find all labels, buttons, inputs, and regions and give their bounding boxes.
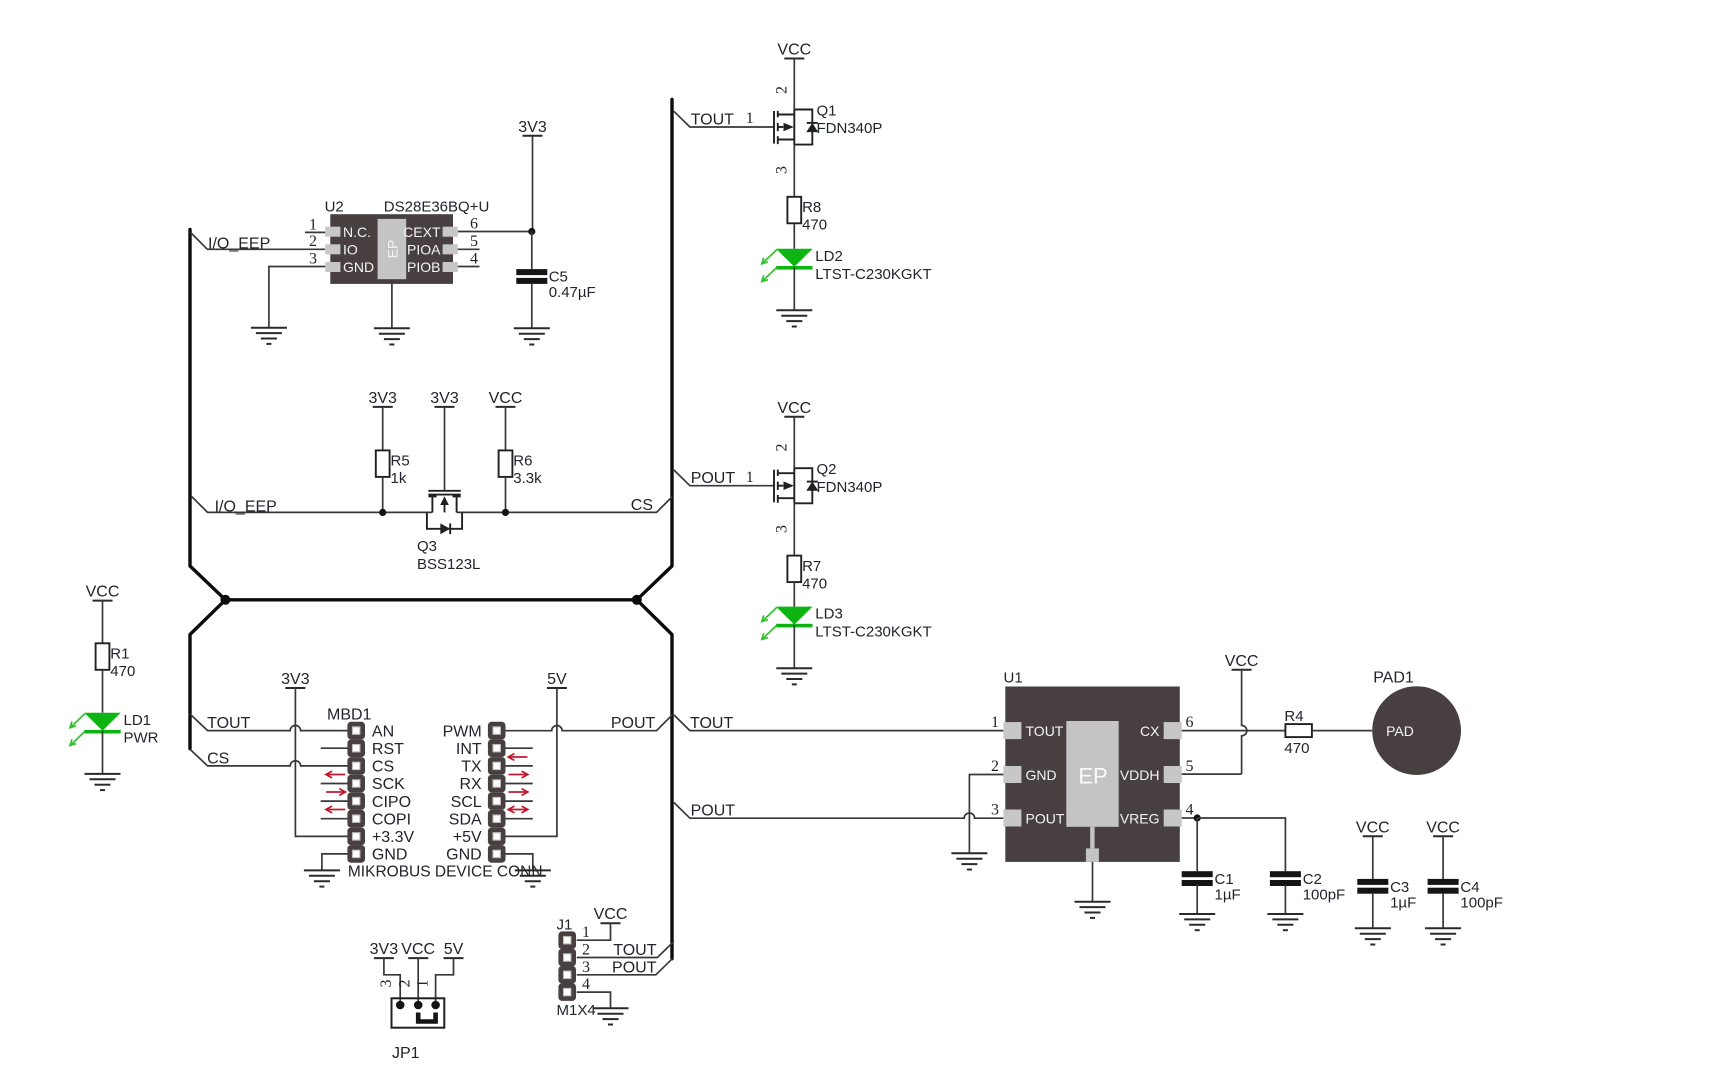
svg-text:VCC: VCC xyxy=(1356,819,1390,836)
wire R1 to LD1 xyxy=(102,670,104,713)
svg-text:LD1: LD1 xyxy=(124,712,152,729)
svg-text:3: 3 xyxy=(991,802,999,819)
wire CX pin6 to R4 xyxy=(1182,730,1286,732)
wire TOUT from bus to J1 pin2 xyxy=(577,941,674,957)
svg-text:R7: R7 xyxy=(802,558,821,575)
wire VCC to R1 xyxy=(102,601,104,644)
connector J1 M1X4 xyxy=(558,931,576,1000)
ground U2 EP xyxy=(374,328,410,344)
node R6 junction xyxy=(502,509,509,516)
bus I/O_EEP / CS / TOUT / POUT thick net bundle xyxy=(190,100,672,959)
svg-text:CIPO: CIPO xyxy=(372,794,411,811)
JP1 pin3 contact xyxy=(396,1001,405,1010)
svg-text:LTST-C230KGKT: LTST-C230KGKT xyxy=(815,624,931,641)
svg-text:VCC: VCC xyxy=(777,42,811,59)
svg-text:TOUT: TOUT xyxy=(1026,723,1064,739)
wire VREG node to C2 xyxy=(1197,818,1285,871)
transistor Q3 BSS123L xyxy=(427,491,462,534)
power 3V3 rail above C5 xyxy=(518,119,547,136)
wire VCC to Q1 drain pin2 xyxy=(793,59,795,110)
wire POUT gate Q2 xyxy=(674,470,774,486)
svg-text:5V: 5V xyxy=(444,941,464,958)
svg-text:FDN340P: FDN340P xyxy=(817,120,883,137)
svg-text:IO: IO xyxy=(343,242,358,258)
svg-text:EP: EP xyxy=(385,240,401,259)
wire CEXT node down to C5 xyxy=(531,232,533,270)
JP1 shunt jumper 1-2 xyxy=(418,1013,435,1022)
svg-text:TOUT: TOUT xyxy=(690,715,733,732)
svg-text:470: 470 xyxy=(110,663,135,680)
svg-text:PAD1: PAD1 xyxy=(1373,670,1414,687)
svg-text:3: 3 xyxy=(309,250,317,267)
U2 pin 6 wire to C5 node xyxy=(458,231,532,233)
arrow in above COPI xyxy=(326,806,345,813)
DEVICE CONN pin SCL stub xyxy=(505,800,532,802)
svg-text:1: 1 xyxy=(746,469,754,486)
node CEXT junction xyxy=(528,228,535,235)
svg-text:INT: INT xyxy=(456,741,482,758)
DEVICE CONN pin GND wire to ground xyxy=(505,854,532,871)
resistor R8 470 xyxy=(787,197,801,224)
svg-text:1µF: 1µF xyxy=(1215,887,1241,904)
ground C3 xyxy=(1355,928,1391,944)
svg-text:RX: RX xyxy=(459,776,482,793)
wire JP1 pin1 to 5V xyxy=(436,958,454,1005)
power 5V rail above DEVICE CONN xyxy=(547,671,567,688)
arrow in above TX xyxy=(508,754,527,761)
power VCC rail above R1 xyxy=(86,584,120,601)
svg-text:RST: RST xyxy=(372,741,404,758)
wire U1 GND pin2 to ground with drop xyxy=(969,775,1003,854)
svg-text:R4: R4 xyxy=(1284,708,1303,725)
wire LD1 to ground xyxy=(102,731,104,774)
arrow in above SCK xyxy=(326,771,345,778)
power VCC rail above J1 xyxy=(594,906,628,923)
wire VREG node to C1 xyxy=(1196,818,1198,871)
wire JP1 pin2 to VCC xyxy=(417,958,419,1005)
svg-text:R8: R8 xyxy=(802,199,821,216)
svg-text:R5: R5 xyxy=(391,453,410,470)
U2 EP wire to ground xyxy=(391,279,393,328)
MBD1 pin SCK stub xyxy=(321,783,348,785)
svg-text:6: 6 xyxy=(1186,714,1194,731)
power VCC rail above VDDH xyxy=(1225,653,1259,670)
ground U2 pin3 xyxy=(251,328,287,344)
svg-text:5V: 5V xyxy=(547,671,567,688)
power VCC rail above Q2 xyxy=(777,400,811,417)
svg-text:U2: U2 xyxy=(325,199,344,216)
svg-text:I/O_EEP: I/O_EEP xyxy=(208,235,270,252)
DEVICE CONN pin SDA stub xyxy=(505,818,532,820)
power VCC rail above C4 xyxy=(1426,819,1460,836)
wire 3V3 to CEXT node xyxy=(532,136,534,232)
resistor R7 470 xyxy=(787,556,801,583)
power 3V3 rail above JP1 xyxy=(370,941,399,958)
wire C5 to ground xyxy=(531,283,533,329)
ground U1 pin2 xyxy=(951,853,987,869)
svg-text:GND: GND xyxy=(446,847,482,864)
svg-text:PIOB: PIOB xyxy=(407,259,440,275)
bus junction right xyxy=(632,595,642,605)
svg-text:POUT: POUT xyxy=(611,715,656,732)
svg-text:TOUT: TOUT xyxy=(207,715,250,732)
svg-text:2: 2 xyxy=(774,444,791,452)
svg-text:5: 5 xyxy=(470,233,478,250)
wire TOUT from bus to MBD1 AN with hop xyxy=(190,714,348,731)
svg-text:1: 1 xyxy=(582,924,590,941)
svg-text:3V3: 3V3 xyxy=(430,390,459,407)
svg-text:3V3: 3V3 xyxy=(368,390,397,407)
power VCC rail above C3 xyxy=(1356,819,1390,836)
LED LD3 LTST-C230KGKT xyxy=(762,607,813,640)
svg-text:3: 3 xyxy=(582,959,590,976)
wire VCC to C3 xyxy=(1372,836,1374,879)
svg-text:CS: CS xyxy=(207,750,229,767)
DEVICE CONN pin TX stub xyxy=(505,765,532,767)
svg-text:5: 5 xyxy=(1186,758,1194,775)
wire LD2 to ground xyxy=(793,267,795,310)
ground J1 xyxy=(593,1008,629,1024)
capacitor C1 1uF xyxy=(1182,871,1213,886)
svg-text:4: 4 xyxy=(582,976,590,993)
svg-text:VCC: VCC xyxy=(777,400,811,417)
ground C5 xyxy=(514,328,550,344)
svg-text:1: 1 xyxy=(746,110,754,127)
svg-text:3: 3 xyxy=(774,525,791,533)
transistor Q1 FDN340P xyxy=(774,110,818,145)
node VREG junction xyxy=(1194,814,1201,821)
wire POUT from bus to U1 pin3 with hop at GND drop xyxy=(674,803,1004,819)
svg-text:3V3: 3V3 xyxy=(281,671,310,688)
svg-text:VCC: VCC xyxy=(594,906,628,923)
svg-text:3.3k: 3.3k xyxy=(513,470,542,487)
capacitor C4 100pF xyxy=(1428,879,1459,894)
svg-text:SDA: SDA xyxy=(449,811,482,828)
svg-text:VREG: VREG xyxy=(1120,811,1160,827)
wire R7 to LD3 xyxy=(793,582,795,607)
svg-text:SCL: SCL xyxy=(451,794,482,811)
ground LD3 xyxy=(776,668,812,684)
svg-text:100pF: 100pF xyxy=(1460,894,1503,911)
arrow bidir above SDA xyxy=(508,806,528,813)
svg-text:PAD: PAD xyxy=(1386,723,1414,739)
svg-text:3: 3 xyxy=(378,980,395,988)
wire R8 to LD2 xyxy=(793,223,795,249)
svg-text:Q2: Q2 xyxy=(817,461,837,478)
resistor R6 3.3k xyxy=(499,450,513,477)
svg-text:Q1: Q1 xyxy=(817,103,837,120)
svg-text:POUT: POUT xyxy=(691,803,736,820)
svg-text:CS: CS xyxy=(372,759,394,776)
wire TOUT from bus to U1 pin1 xyxy=(674,715,1004,731)
wire R5 to I/O_EEP node xyxy=(382,477,384,513)
wire JP1 pin3 to 3V3 xyxy=(384,958,400,1005)
svg-text:AN: AN xyxy=(372,723,394,740)
svg-text:4: 4 xyxy=(470,250,478,267)
svg-text:EP: EP xyxy=(1078,764,1107,789)
svg-text:PWR: PWR xyxy=(124,730,159,747)
U2 pin 3 wire to ground xyxy=(269,267,325,328)
svg-text:VCC: VCC xyxy=(1225,653,1259,670)
svg-text:DS28E36BQ+U: DS28E36BQ+U xyxy=(384,199,489,216)
LED LD1 PWR xyxy=(70,713,121,746)
wire Q2 source pin3 to R7 xyxy=(793,503,795,555)
capacitor C3 1uF xyxy=(1357,879,1388,894)
wire 3V3 to Q3 gate xyxy=(444,407,446,490)
U2 pin 1 stub xyxy=(305,231,325,233)
svg-text:SCK: SCK xyxy=(372,776,405,793)
arrow out above SCL xyxy=(509,789,528,796)
svg-text:6: 6 xyxy=(470,215,478,232)
DEVICE CONN pin RX stub xyxy=(505,783,532,785)
svg-text:MBD1: MBD1 xyxy=(327,707,372,724)
jumper JP1 body xyxy=(392,998,445,1027)
power 5V rail above JP1 xyxy=(444,941,464,958)
wire J1 pin1 to VCC xyxy=(577,923,611,940)
svg-text:TOUT: TOUT xyxy=(613,942,656,959)
power VCC rail above Q1 xyxy=(777,42,811,59)
svg-text:CX: CX xyxy=(1140,723,1160,739)
wire VCC to C4 xyxy=(1442,836,1444,879)
svg-text:J1: J1 xyxy=(557,917,573,934)
capacitor C2 100pF xyxy=(1270,871,1301,886)
ground DEVICE CONN xyxy=(515,870,551,886)
wire C2 to ground xyxy=(1284,885,1286,914)
svg-text:M1X4: M1X4 xyxy=(557,1002,596,1019)
svg-text:U1: U1 xyxy=(1004,670,1023,687)
svg-text:2: 2 xyxy=(582,942,590,959)
wire R4 to PAD1 xyxy=(1312,730,1372,732)
wire C3 to ground xyxy=(1372,893,1374,929)
JP1 pin2 contact xyxy=(414,1001,423,1010)
wire CS from Q3 to bus xyxy=(457,497,673,513)
svg-text:CS: CS xyxy=(631,497,653,514)
capacitor C5 xyxy=(516,269,547,284)
MBD1 pin COPI stub xyxy=(321,818,348,820)
wire LD3 to ground xyxy=(793,625,795,668)
wire VCC to Q2 drain pin2 xyxy=(793,417,795,468)
ground C2 xyxy=(1267,914,1303,930)
svg-text:POUT: POUT xyxy=(1026,811,1065,827)
svg-text:PWM: PWM xyxy=(443,723,482,740)
connector MBD1 mikroBUS left half xyxy=(347,722,365,863)
svg-text:1: 1 xyxy=(309,216,317,233)
ground LD1 xyxy=(85,774,121,790)
svg-text:3V3: 3V3 xyxy=(370,941,399,958)
ground C4 xyxy=(1425,928,1461,944)
DEVICE CONN pin INT stub xyxy=(505,747,532,749)
wire I/O_EEP mid from bus to Q3/R5 xyxy=(191,496,432,513)
svg-text:3: 3 xyxy=(774,166,791,174)
ground LD2 xyxy=(776,310,812,326)
U2 pin 5 stub xyxy=(458,248,480,250)
wire R6 to CS node xyxy=(505,477,507,513)
svg-text:TX: TX xyxy=(461,759,482,776)
svg-text:I/O_EEP: I/O_EEP xyxy=(215,498,277,515)
wire VCC to R6 xyxy=(505,407,507,451)
svg-text:LTST-C230KGKT: LTST-C230KGKT xyxy=(815,266,931,283)
svg-text:+5V: +5V xyxy=(453,829,482,846)
U2 pin 4 stub xyxy=(458,266,480,268)
ground MBD1 xyxy=(304,870,340,886)
svg-text:LD3: LD3 xyxy=(815,606,843,623)
svg-text:VCC: VCC xyxy=(1426,819,1460,836)
wire 3V3 to R5 xyxy=(382,407,384,451)
wire VCC drop to VDDH with hop over CX xyxy=(1242,670,1247,774)
wire VREG pin4 to node xyxy=(1182,817,1198,819)
pad PAD1 xyxy=(1372,686,1461,775)
wire C4 to ground xyxy=(1442,893,1444,929)
MBD1 pin GND wire to ground xyxy=(322,854,348,871)
svg-text:POUT: POUT xyxy=(612,959,657,976)
wire CS from bus to MBD1 CS with hop xyxy=(190,749,348,766)
arrow out above RX xyxy=(509,771,528,778)
svg-text:VDDH: VDDH xyxy=(1120,767,1160,783)
svg-text:1µF: 1µF xyxy=(1390,894,1416,911)
svg-text:VCC: VCC xyxy=(401,941,435,958)
svg-text:2: 2 xyxy=(774,86,791,94)
node R5 junction xyxy=(379,509,386,516)
svg-text:GND: GND xyxy=(343,259,374,275)
resistor R5 1k xyxy=(376,450,390,477)
svg-text:LD2: LD2 xyxy=(815,248,843,265)
svg-text:2: 2 xyxy=(397,980,414,988)
JP1 pin1 contact xyxy=(431,1001,440,1010)
IC U1 xyxy=(1003,687,1181,862)
svg-text:470: 470 xyxy=(1284,740,1309,757)
svg-text:1k: 1k xyxy=(391,470,407,487)
power 3V3 rail above Q3 gate xyxy=(430,390,459,407)
svg-text:Q3: Q3 xyxy=(417,538,437,555)
wire Q1 source pin3 to R8 xyxy=(793,145,795,197)
wire U1 EP to ground xyxy=(1092,862,1094,902)
svg-text:2: 2 xyxy=(309,233,317,250)
svg-text:470: 470 xyxy=(802,217,827,234)
LED LD2 LTST-C230KGKT xyxy=(762,249,813,282)
svg-text:4: 4 xyxy=(1186,802,1194,819)
svg-text:R1: R1 xyxy=(110,646,129,663)
wire 5V to DEVICE CONN +5V xyxy=(505,688,557,836)
svg-text:TOUT: TOUT xyxy=(691,111,734,128)
connector DEVICE CONN mikroBUS right half xyxy=(488,722,506,863)
svg-text:MIKROBUS DEVICE CONN: MIKROBUS DEVICE CONN xyxy=(348,863,543,880)
svg-text:+3.3V: +3.3V xyxy=(372,829,415,846)
wire VDDH pin5 xyxy=(1182,773,1242,775)
svg-text:2: 2 xyxy=(991,758,999,775)
svg-text:470: 470 xyxy=(802,575,827,592)
svg-text:BSS123L: BSS123L xyxy=(417,556,480,573)
resistor R4 470 horizontal xyxy=(1285,724,1312,737)
svg-text:100pF: 100pF xyxy=(1303,887,1346,904)
wire I/O_EEP top from bus to U2 pin2 xyxy=(191,232,326,249)
bus junction left xyxy=(220,595,230,605)
svg-text:COPI: COPI xyxy=(372,811,411,828)
power 3V3 rail above R5 xyxy=(368,390,397,407)
MBD1 pin RST stub xyxy=(321,747,348,749)
wire TOUT gate Q1 xyxy=(674,111,774,127)
svg-text:JP1: JP1 xyxy=(392,1045,420,1062)
svg-text:1: 1 xyxy=(991,714,999,731)
svg-text:N.C.: N.C. xyxy=(343,224,371,240)
svg-text:PIOA: PIOA xyxy=(407,242,441,258)
arrow out above CIPO xyxy=(326,789,345,796)
svg-text:FDN340P: FDN340P xyxy=(817,479,883,496)
svg-text:C5: C5 xyxy=(549,269,568,286)
svg-text:GND: GND xyxy=(1026,767,1057,783)
ground C1 xyxy=(1179,914,1215,930)
wire 3V3 to MBD1 +3.3V xyxy=(295,688,347,836)
transistor Q2 FDN340P xyxy=(774,468,818,503)
power VCC rail above R6 xyxy=(489,390,523,407)
svg-text:GND: GND xyxy=(372,847,408,864)
power 3V3 rail above MBD1 xyxy=(281,671,310,688)
svg-text:3V3: 3V3 xyxy=(518,119,547,136)
MBD1 pin CIPO stub xyxy=(321,800,348,802)
wire POUT from bus to J1 pin3 xyxy=(577,959,673,975)
ground U1 EP xyxy=(1075,902,1111,918)
svg-text:VCC: VCC xyxy=(489,390,523,407)
wire POUT from DEVICE CONN PWM to bus with hop xyxy=(505,715,672,731)
svg-text:R6: R6 xyxy=(513,453,532,470)
wire J1 pin4 to ground xyxy=(577,992,611,1008)
svg-text:CEXT: CEXT xyxy=(403,224,441,240)
power VCC rail above JP1 xyxy=(401,941,435,958)
svg-text:VCC: VCC xyxy=(86,584,120,601)
svg-text:POUT: POUT xyxy=(691,470,736,487)
svg-text:0.47µF: 0.47µF xyxy=(549,284,596,301)
wire C1 to ground xyxy=(1196,885,1198,914)
IC U2 DS28E36BQ+U xyxy=(325,214,458,284)
svg-text:1: 1 xyxy=(415,980,432,988)
resistor R1 470 xyxy=(96,643,110,670)
